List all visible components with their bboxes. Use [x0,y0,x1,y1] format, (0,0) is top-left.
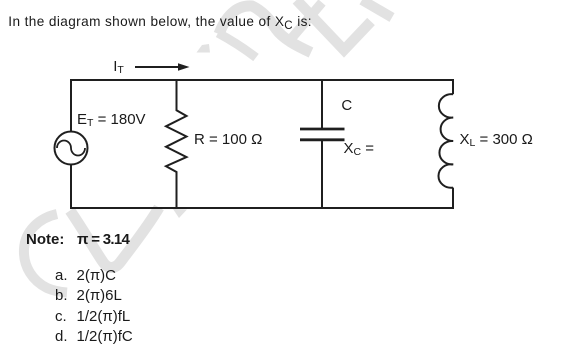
wire bottom [71,207,453,209]
label C [341,98,352,113]
watermark V fragment (top right) [297,0,372,50]
watermark letter C fragment (bottom left) [24,214,67,293]
label XL = 300 ohm [460,132,533,147]
watermark wedge fragment (below bottom wire) [173,209,187,218]
option d formula [77,329,133,344]
capacitor C wire upper [321,79,323,128]
capacitor C plate bottom [300,138,345,141]
note pi value [77,232,129,247]
inductor L wire lower [452,188,454,209]
AC source sine wave [57,141,85,156]
watermark diagonal band (top right) [362,0,392,18]
watermark letter O bottom fragment (bottom left) [70,208,159,268]
label ET = 180V [77,112,146,127]
option a formula [77,268,117,283]
current arrow IT head [178,63,190,71]
watermark X stroke 1 (top right) [288,3,323,44]
label XC = [344,141,375,156]
title [8,15,312,29]
capacitor C plate top [300,128,345,131]
watermark wedge fragment (top left of dome) [197,44,211,53]
wire top [71,79,453,81]
inductor L coil [438,94,453,188]
option d [55,329,68,344]
label R = 100 ohm [194,132,262,147]
option c [55,309,67,324]
wire left upper [70,79,72,132]
option a [55,268,68,283]
watermark dome fragment (top) [219,6,311,53]
resistor R zigzag [166,79,187,209]
capacitor C wire lower [321,141,323,209]
option b formula [77,288,122,303]
note line [26,232,64,247]
watermark inner band fragment (top) [218,33,256,58]
option c formula [77,309,131,324]
label IT [113,59,124,74]
current arrow IT [135,66,179,68]
inductor L wire upper [452,79,454,94]
option b [55,288,68,303]
wire left lower [70,165,72,210]
AC source V1 circle [55,132,88,165]
